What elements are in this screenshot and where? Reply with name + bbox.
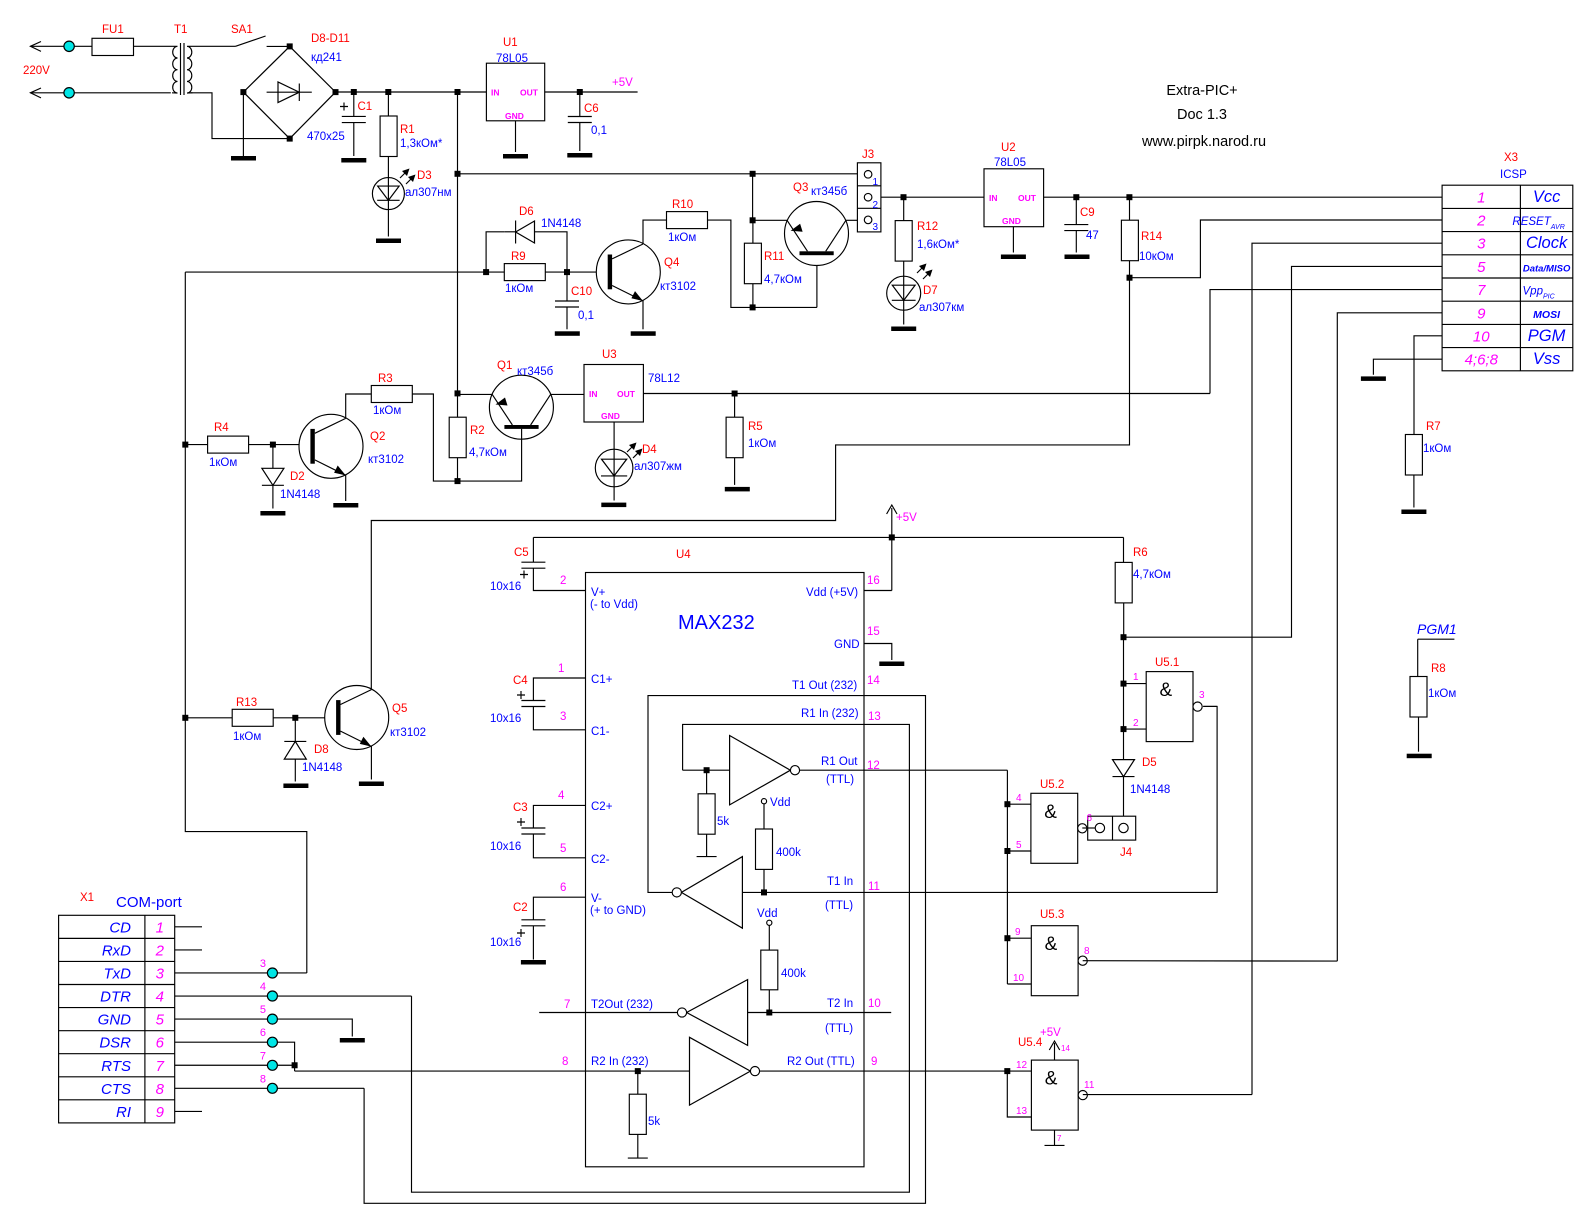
ground R7: [1401, 510, 1426, 515]
wire R13 to Q5 base: [273, 717, 336, 719]
wire R1 In pin13 to DTR: [412, 724, 910, 1192]
svg-text:MAX232: MAX232: [678, 612, 755, 634]
svg-text:1: 1: [558, 663, 564, 675]
wire U5.4 Vcc: [1054, 1043, 1056, 1060]
svg-text:9: 9: [871, 1056, 877, 1068]
wire U5.4 pin13: [1007, 1071, 1031, 1117]
transistor Q1: [489, 375, 553, 439]
wire R3 to bus: [412, 394, 457, 481]
svg-text:5: 5: [1477, 259, 1486, 276]
svg-text:Vdd: Vdd: [770, 797, 790, 809]
wire U5.3 pin9: [1007, 937, 1031, 939]
wire R1 Out net vertical: [1006, 770, 1008, 984]
svg-text:Vcc: Vcc: [1533, 188, 1561, 206]
svg-text:кт3102: кт3102: [390, 727, 426, 739]
svg-text:Q1: Q1: [497, 360, 512, 372]
node COM pin 5: [267, 1014, 277, 1024]
ground R8: [1407, 754, 1432, 759]
capacitor C5: [521, 561, 545, 563]
wire U5.1 pin1: [1124, 683, 1147, 685]
node U5.1 pin2: [1121, 726, 1127, 732]
wire to R4: [185, 444, 207, 446]
node bridge AC bottom: [287, 136, 293, 142]
node U5.2 pin4: [1004, 801, 1010, 807]
svg-text:T1: T1: [174, 24, 187, 36]
node Q1 base junction: [455, 478, 461, 484]
svg-text:TxD: TxD: [104, 965, 132, 982]
svg-text:PGM: PGM: [1528, 327, 1566, 345]
svg-text:0,1: 0,1: [578, 310, 594, 322]
svg-text:1,3кОм*: 1,3кОм*: [400, 138, 443, 150]
svg-text:J4: J4: [1120, 847, 1133, 859]
svg-text:7: 7: [1057, 1134, 1062, 1143]
node 400k2 / T2 In: [766, 1010, 772, 1016]
wire R1 Out pin12: [800, 769, 1008, 771]
svg-text:U5.2: U5.2: [1040, 779, 1064, 791]
Vdd pullup 400k #2: [767, 920, 772, 925]
svg-text:C5: C5: [514, 547, 529, 559]
svg-text:C2-: C2-: [591, 854, 610, 866]
resistor R3: [371, 386, 412, 403]
svg-text:8: 8: [1084, 946, 1090, 957]
node bridge minus: [240, 89, 246, 95]
svg-text:U3: U3: [602, 349, 617, 361]
svg-text:3: 3: [873, 222, 879, 233]
svg-text:Vdd (+5V): Vdd (+5V): [806, 587, 858, 599]
ground D3: [376, 239, 401, 244]
svg-text:OUT: OUT: [617, 389, 636, 399]
node R13 tap: [182, 715, 188, 721]
svg-text:1N4148: 1N4148: [541, 218, 581, 230]
node bus rail junction: [455, 171, 461, 177]
svg-text:10x16: 10x16: [490, 841, 521, 853]
svg-text:C4: C4: [513, 675, 528, 687]
svg-text:X3: X3: [1504, 152, 1518, 164]
svg-text:V-: V-: [591, 893, 602, 905]
svg-text:6: 6: [1087, 813, 1093, 824]
capacitor C2: [521, 919, 545, 921]
bridge rectifier D8-D11: [243, 46, 335, 138]
svg-text:9: 9: [1015, 927, 1021, 938]
wire R4 to Q2 base: [249, 444, 311, 446]
resistor R12: [895, 221, 912, 262]
svg-text:X1: X1: [80, 892, 94, 904]
wire PGM to R7: [1414, 336, 1442, 435]
wire Q1 collector to U3: [551, 393, 585, 395]
svg-text:3: 3: [1477, 236, 1486, 253]
wire C2- pin5: [533, 834, 585, 858]
svg-text:1кОм: 1кОм: [505, 283, 533, 295]
wire D5 to J4: [1123, 777, 1125, 817]
svg-text:R2 In (232): R2 In (232): [591, 1056, 649, 1068]
svg-text:10x16: 10x16: [490, 581, 521, 593]
wire AC line bottom: [30, 92, 170, 94]
svg-text:RTS: RTS: [101, 1058, 131, 1075]
svg-text:DTR: DTR: [100, 989, 131, 1006]
LED D7: [887, 276, 921, 310]
svg-text:16: 16: [867, 575, 880, 587]
capacitor C4: [521, 700, 545, 702]
node COM pin 8: [267, 1083, 277, 1093]
svg-text:12: 12: [1016, 1060, 1028, 1071]
svg-text:Vss: Vss: [1533, 350, 1561, 368]
node R6 / Data junction: [1121, 634, 1127, 640]
buffer R1 (inside U4): [730, 736, 791, 805]
svg-text:D4: D4: [642, 444, 657, 456]
svg-text:D3: D3: [417, 170, 432, 182]
node bridge AC top: [287, 43, 293, 49]
fuse FU1: [92, 38, 134, 55]
svg-text:R2 Out (TTL): R2 Out (TTL): [787, 1056, 855, 1068]
node main bus top: [455, 89, 461, 95]
svg-text:2: 2: [1133, 718, 1139, 729]
svg-text:C2: C2: [513, 902, 528, 914]
wire TxD: [175, 972, 307, 974]
svg-text:R2: R2: [470, 425, 485, 437]
svg-text:D8: D8: [314, 744, 329, 756]
resistor R5: [726, 417, 743, 458]
ground COM: [340, 1038, 365, 1043]
resistor 400k: [761, 950, 778, 990]
svg-text:1: 1: [1477, 189, 1485, 206]
node D6 left: [483, 269, 489, 275]
svg-text:10x16: 10x16: [490, 713, 521, 725]
wire DSR to RTS: [175, 1042, 295, 1065]
node R1 junction: [385, 89, 391, 95]
svg-text:C9: C9: [1080, 207, 1095, 219]
svg-text:U5.4: U5.4: [1018, 1037, 1043, 1049]
svg-text:CTS: CTS: [101, 1081, 131, 1098]
wire U5.2 pin5: [1007, 850, 1031, 852]
svg-text:PGM1: PGM1: [1417, 621, 1457, 637]
regulator U2 78L05: [984, 169, 1044, 227]
svg-text:5: 5: [260, 1004, 266, 1016]
wire RI stub: [175, 1110, 202, 1112]
wire Q2 collector to R3: [346, 394, 372, 418]
capacitor C1: [342, 115, 366, 117]
svg-text:C3: C3: [513, 802, 528, 814]
svg-text:1кОм: 1кОм: [209, 457, 237, 469]
resistor 400k: [756, 829, 773, 869]
svg-text:470x25: 470x25: [307, 131, 345, 143]
svg-text:78L05: 78L05: [994, 157, 1026, 169]
svg-text:6: 6: [560, 882, 566, 894]
svg-text:8: 8: [562, 1056, 568, 1068]
wire U5.1 output: [1203, 705, 1217, 707]
wire U1 gnd: [515, 121, 517, 152]
wire fuse to transformer: [134, 45, 173, 47]
svg-text:R13: R13: [236, 697, 257, 709]
node +5V arrow: [889, 534, 895, 540]
buffer R2 (inside U4): [690, 1037, 751, 1105]
svg-text:Q5: Q5: [392, 703, 407, 715]
svg-text:MOSI: MOSI: [1533, 309, 1561, 321]
svg-text:U2: U2: [1001, 142, 1016, 154]
svg-text:C1-: C1-: [591, 726, 610, 738]
wire GND pin15: [864, 644, 892, 661]
node DSR/RTS junction: [292, 1062, 298, 1068]
svg-text:6: 6: [156, 1035, 165, 1052]
wire Q5 emitter: [370, 746, 372, 780]
svg-text:5: 5: [560, 843, 566, 855]
svg-text:T2 In: T2 In: [827, 998, 853, 1010]
node R12 junction: [901, 194, 907, 200]
svg-text:R1: R1: [400, 124, 415, 136]
svg-text:10кОм: 10кОм: [1139, 251, 1174, 263]
svg-text:4,7кОм: 4,7кОм: [1133, 569, 1171, 581]
wire main bus upper: [457, 92, 459, 417]
node 5k junction: [704, 767, 710, 773]
svg-text:11: 11: [868, 881, 880, 893]
wire main bus lower: [457, 457, 459, 481]
svg-text:U5.3: U5.3: [1040, 909, 1064, 921]
svg-text:3: 3: [156, 965, 165, 982]
svg-text:78L12: 78L12: [648, 373, 680, 385]
svg-text:7: 7: [564, 999, 570, 1011]
svg-text:кд241: кд241: [311, 52, 342, 64]
svg-text:4;6;8: 4;6;8: [1465, 352, 1499, 369]
wire R14 to X3 RESET: [1130, 220, 1443, 278]
svg-text:R9: R9: [511, 251, 526, 263]
svg-text:CD: CD: [109, 919, 131, 936]
wire Q4 collector to R10: [643, 220, 667, 244]
svg-text:1: 1: [1133, 672, 1139, 683]
svg-text:U4: U4: [676, 549, 691, 561]
node R4 tap: [182, 442, 188, 448]
svg-text:D8-D11: D8-D11: [311, 33, 350, 45]
svg-text:RxD: RxD: [102, 942, 131, 959]
svg-text:400k: 400k: [776, 847, 801, 859]
wire T1 In pin11 from U5.1: [742, 706, 1217, 892]
node U5.3 pin9: [1004, 935, 1010, 941]
svg-text:1кОм: 1кОм: [1428, 688, 1456, 700]
svg-text:(- to Vdd): (- to Vdd): [590, 599, 638, 611]
svg-text:1N4148: 1N4148: [1130, 784, 1170, 796]
svg-text:IN: IN: [491, 88, 500, 98]
svg-text:OUT: OUT: [520, 88, 539, 98]
ground U2: [1001, 255, 1026, 260]
svg-text:R10: R10: [672, 199, 693, 211]
resistor R10: [667, 212, 708, 229]
svg-text:1: 1: [156, 919, 164, 936]
capacitor C10: [555, 300, 579, 302]
node R14 junction: [1126, 194, 1132, 200]
svg-text:OUT: OUT: [1018, 193, 1037, 203]
wire +5V rail: [533, 536, 1123, 538]
wire C5 to V+ pin2: [533, 568, 585, 590]
wire D6 left leg: [486, 232, 505, 272]
svg-text:1кОм: 1кОм: [668, 232, 696, 244]
wire TxD left bus: [185, 272, 306, 973]
node 5k2 junction: [635, 1068, 641, 1074]
capacitor C1: [353, 92, 355, 116]
connector X3 ICSP table: [1442, 185, 1573, 371]
svg-text:R8: R8: [1431, 663, 1446, 675]
wire C2+ pin4: [533, 805, 585, 828]
wire U3 gnd to D4: [613, 422, 615, 449]
svg-text:&: &: [1045, 1069, 1058, 1090]
svg-text:R5: R5: [748, 421, 763, 433]
ground D4: [601, 503, 626, 508]
220V input arrows: [30, 42, 41, 52]
wire R2 Out pin9 to U5.4: [760, 1070, 1032, 1072]
svg-text:10: 10: [868, 998, 881, 1010]
transistor Q5 (NPN): [325, 686, 389, 750]
svg-text:R11: R11: [764, 251, 784, 263]
svg-text:GND: GND: [98, 1012, 132, 1029]
svg-text:D2: D2: [290, 471, 305, 483]
svg-text:кт3102: кт3102: [660, 281, 696, 293]
wire U5.3 pin10: [1007, 983, 1031, 985]
svg-text:&: &: [1045, 934, 1058, 955]
svg-text:R4: R4: [214, 422, 229, 434]
Q3 emitter branch: [752, 174, 754, 221]
regulator U3 78L12: [584, 365, 643, 423]
svg-text:Q4: Q4: [664, 257, 680, 269]
wire U5.4 out to Clock: [1083, 1094, 1252, 1096]
svg-text:8: 8: [260, 1073, 266, 1085]
capacitor C6: [568, 116, 592, 118]
wire to Q3 emitter: [753, 219, 788, 221]
svg-text:9: 9: [156, 1104, 165, 1121]
svg-text:Vdd: Vdd: [757, 908, 777, 920]
svg-text:GND: GND: [1002, 216, 1021, 226]
svg-text:D6: D6: [519, 206, 534, 218]
svg-text:2: 2: [873, 200, 879, 211]
capacitor C9: [1064, 224, 1088, 226]
wire C5 top: [532, 537, 534, 562]
IC U4 MAX232: [586, 573, 865, 1167]
node 400k / T1 In: [761, 889, 767, 895]
wire D2 top: [272, 445, 274, 469]
svg-text:+5V: +5V: [612, 77, 633, 89]
svg-text:&: &: [1044, 802, 1057, 823]
svg-text:14: 14: [867, 675, 880, 687]
svg-text:IN: IN: [989, 193, 998, 203]
wire J3 pin2 to U2 IN: [881, 196, 984, 198]
svg-text:R12: R12: [917, 221, 938, 233]
svg-text:2: 2: [155, 942, 165, 959]
switch blade SA1: [236, 36, 266, 46]
node Q1 emitter junction: [455, 390, 461, 396]
wire bus to Q1 emitter: [458, 393, 493, 395]
svg-text:1кОм: 1кОм: [748, 438, 776, 450]
svg-text:0,1: 0,1: [591, 125, 607, 137]
ground Vss: [1361, 376, 1386, 381]
wire U1 out to +5V: [545, 91, 638, 93]
svg-text:(+ to GND): (+ to GND): [590, 905, 646, 917]
svg-text:FU1: FU1: [102, 24, 124, 36]
svg-text:7: 7: [1477, 282, 1486, 299]
ground U1: [503, 154, 528, 159]
wire T1 Out pin14 to CTS: [364, 696, 925, 1204]
wire Data net to U5.1/D5: [1123, 637, 1125, 759]
svg-text:5k: 5k: [717, 816, 729, 828]
wire U5.2 pin4: [1007, 803, 1031, 805]
node U5.2 pin5: [1004, 848, 1010, 854]
resistor R8: [1410, 677, 1427, 718]
svg-text:5: 5: [1016, 840, 1022, 851]
wire secondary top to switch: [193, 45, 236, 47]
svg-text:ал307нм: ал307нм: [405, 187, 452, 199]
svg-text:кт345б: кт345б: [811, 186, 848, 198]
svg-text:3: 3: [560, 711, 566, 723]
ground D8: [283, 784, 308, 789]
svg-text:ал307жм: ал307жм: [634, 461, 682, 473]
svg-text:+5V: +5V: [1040, 1027, 1061, 1039]
wire Data/MISO net: [1124, 266, 1443, 637]
ground D7: [891, 327, 916, 332]
svg-text:+5V: +5V: [896, 512, 917, 524]
svg-text:GND: GND: [834, 639, 860, 651]
ground 5k2: [628, 1157, 648, 1159]
ground Q5: [359, 782, 384, 787]
svg-text:SA1: SA1: [231, 24, 253, 36]
wire T2 In pin10 stub: [748, 1012, 892, 1014]
ground Q2: [333, 503, 358, 508]
svg-text:47: 47: [1086, 230, 1099, 242]
resistor 5k: [629, 1094, 646, 1134]
resistor R9: [504, 264, 545, 281]
node R14 bottom: [1127, 275, 1133, 281]
wire C1- pin3: [533, 707, 585, 730]
svg-text:Clock: Clock: [1526, 234, 1568, 252]
svg-text:5: 5: [156, 1012, 165, 1029]
LED D3: [372, 178, 404, 210]
ground R5: [725, 487, 750, 492]
svg-text:&: &: [1160, 680, 1173, 701]
ground C2: [521, 960, 546, 965]
node C9 junction: [1073, 194, 1079, 200]
wire Q4 emitter: [642, 300, 644, 329]
svg-text:13: 13: [1016, 1106, 1028, 1117]
svg-text:www.pirpk.narod.ru: www.pirpk.narod.ru: [1141, 134, 1266, 150]
node R5 junction: [732, 391, 738, 397]
wire Vss to ground: [1373, 359, 1442, 375]
wire CD stub: [175, 926, 202, 928]
svg-text:C6: C6: [584, 103, 599, 115]
wire +V rail to J3 pin1: [458, 173, 858, 175]
svg-text:3: 3: [1199, 690, 1205, 701]
svg-text:Q3: Q3: [793, 182, 808, 194]
ground D2: [260, 511, 285, 516]
diode D5: [1113, 760, 1135, 777]
svg-text:C1: C1: [358, 101, 373, 113]
svg-text:10: 10: [1473, 329, 1490, 346]
wire U2 out to X3 Vcc: [1044, 196, 1442, 198]
svg-text:IN: IN: [589, 389, 598, 399]
node COM pin 3: [267, 968, 277, 978]
svg-text:кт345б: кт345б: [517, 366, 554, 378]
svg-text:GND: GND: [505, 111, 524, 121]
ground 5k: [697, 856, 717, 858]
svg-text:ICSP: ICSP: [1500, 169, 1527, 181]
+5V power arrow: [891, 508, 893, 537]
wire R1 buffer input: [683, 769, 730, 771]
wire Vpp net: [643, 393, 1210, 395]
resistor R1: [380, 116, 397, 157]
svg-text:(TTL): (TTL): [825, 1023, 853, 1035]
wire RTS jog: [294, 1065, 296, 1071]
connector X1 COM-port table: [59, 915, 175, 1123]
node C10 junction: [564, 269, 570, 275]
wire R9 to Q4 base: [545, 271, 607, 273]
svg-text:T2Out (232): T2Out (232): [591, 999, 653, 1011]
wire Vdd pin16: [864, 590, 892, 592]
svg-text:D5: D5: [1142, 757, 1157, 769]
svg-text:J3: J3: [862, 149, 874, 161]
svg-text:7: 7: [260, 1050, 266, 1062]
